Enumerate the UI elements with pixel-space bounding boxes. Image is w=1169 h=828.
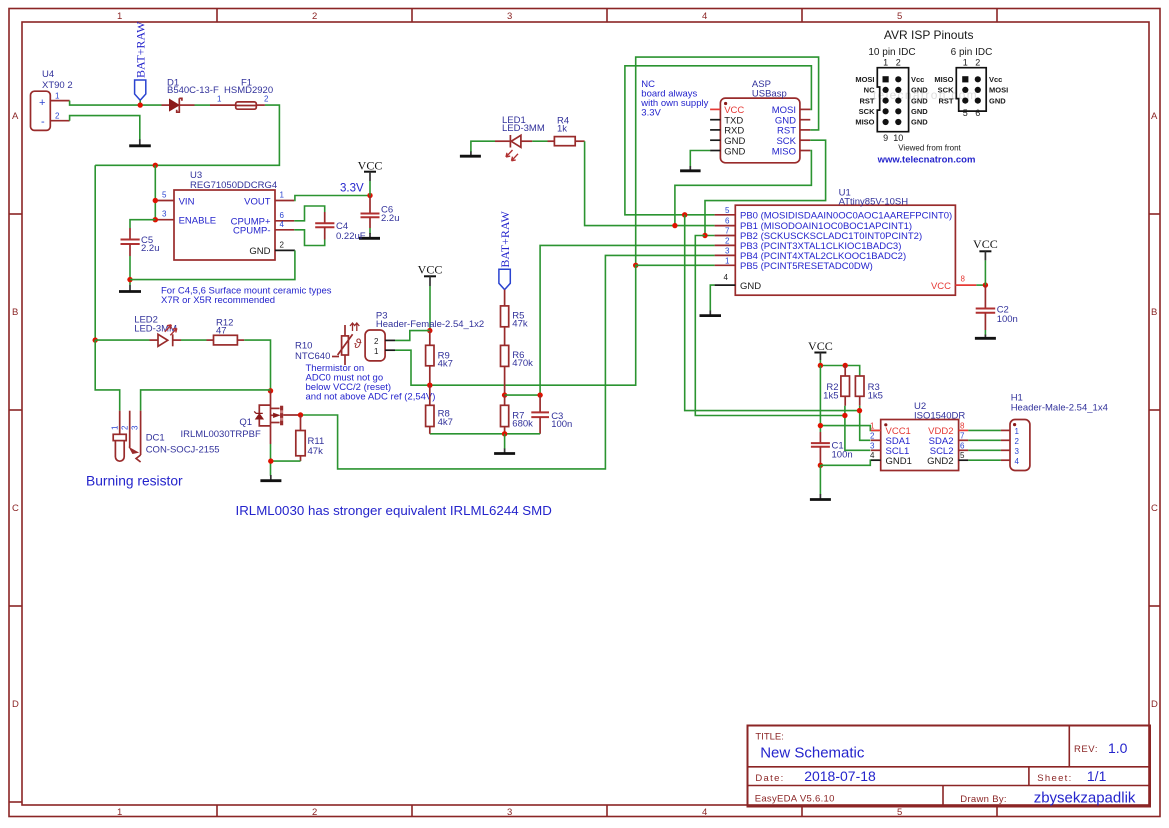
wire ground to LED1 (471, 141, 495, 151)
svg-text:3: 3 (507, 11, 512, 22)
netflag VCC U2 (808, 339, 833, 366)
wire to ground C3 (504, 434, 506, 449)
svg-text:2: 2 (312, 11, 317, 22)
svg-text:MISO: MISO (772, 146, 796, 157)
wire PB4 to Q1 drain (301, 255, 715, 469)
P3 pin 1 stub (385, 349, 395, 351)
junction node R7 bottom (502, 431, 507, 436)
wire VCC1 (820, 426, 879, 431)
capacitor C2 100n (976, 285, 1018, 330)
U2 pin 5 (959, 451, 969, 460)
ground battery (129, 139, 151, 146)
resistor R12 47 (207, 318, 245, 345)
wire LED2 to R12 (181, 339, 207, 341)
wire MISO to PB1 (675, 151, 812, 226)
svg-text:4: 4 (702, 807, 707, 818)
svg-text:2: 2 (975, 58, 980, 68)
svg-text:2: 2 (870, 431, 875, 440)
netflag VCC P3 (418, 263, 443, 331)
wire CPUMP+ to C4 (294, 206, 324, 221)
U2 pin 7 (959, 431, 969, 440)
wire Q1 source down (270, 444, 272, 476)
wire R3 to SDA1 (860, 406, 871, 441)
svg-text:1: 1 (374, 347, 379, 356)
wire R12 to Q1 (244, 340, 270, 391)
svg-text:4: 4 (702, 11, 707, 22)
svg-text:47k: 47k (512, 318, 528, 329)
U1 pin 7 PB2 (715, 227, 736, 236)
svg-text:1: 1 (963, 58, 968, 68)
svg-text:5: 5 (960, 451, 965, 460)
svg-text:CPUMP-: CPUMP- (233, 226, 270, 237)
svg-text:XT90 2: XT90 2 (42, 80, 73, 91)
wire U1 VCC (976, 284, 985, 286)
ASP right stubs MOSI GND RST SCK MISO (800, 109, 810, 150)
svg-text:1k5: 1k5 (823, 391, 838, 402)
svg-text:MISO: MISO (934, 75, 953, 84)
svg-text:PB0 (MOSIDISDAAIN0OC0AOC1AAREF: PB0 (MOSIDISDAAIN0OC0AOC1AAREFPCINT0) (740, 210, 952, 221)
IC U2 ISO1540DR (881, 401, 966, 471)
wire MOSI to PB0 (625, 66, 812, 215)
svg-text:1: 1 (280, 191, 285, 200)
capacitor C3 100n (531, 395, 572, 434)
svg-text:1: 1 (117, 807, 122, 818)
svg-text:GND: GND (911, 118, 928, 127)
junction node SDA (857, 408, 862, 413)
svg-text:1: 1 (1015, 427, 1020, 436)
svg-text:A: A (12, 111, 19, 122)
U1 pin 6 PB1 (715, 217, 736, 226)
svg-text:2: 2 (280, 240, 285, 249)
svg-text:ENABLE: ENABLE (179, 216, 217, 227)
connector DC1 CON-SOCJ-2155 (111, 411, 220, 462)
svg-text:7: 7 (960, 431, 965, 440)
ground C1 (810, 494, 831, 500)
svg-text:CON-SOCJ-2155: CON-SOCJ-2155 (146, 445, 220, 456)
svg-text:VCC: VCC (358, 159, 383, 173)
junction node PB5 (633, 263, 638, 268)
wire RST to PB5 (636, 57, 819, 265)
svg-text:1/1: 1/1 (1087, 768, 1107, 784)
wire DC1 pin3 to Q1 (141, 390, 271, 411)
U1 pin 5 PB0 (715, 206, 736, 215)
svg-text:RST: RST (939, 96, 954, 105)
svg-text:4: 4 (1015, 457, 1020, 466)
resistor R5 47k (501, 290, 528, 330)
svg-text:+: + (39, 97, 45, 109)
resistor R3 1k5 (855, 376, 883, 406)
wire R7 C3 bottom (430, 433, 540, 435)
svg-text:100n: 100n (832, 450, 853, 461)
svg-text:Date:: Date: (755, 773, 784, 784)
U1 pin 8 VCC (955, 275, 976, 286)
svg-text:Drawn By:: Drawn By: (960, 794, 1007, 805)
svg-text:4k7: 4k7 (438, 358, 453, 369)
junction node PB0 (682, 212, 687, 217)
ground C3 (494, 449, 515, 454)
svg-text:REV:: REV: (1074, 744, 1098, 755)
junction node C3 top (537, 392, 542, 397)
junction node C1 bottom (818, 463, 823, 468)
svg-text:3: 3 (162, 210, 167, 219)
header P3 Header-Female-2.54_1x2 (365, 310, 484, 361)
svg-text:VCC: VCC (808, 339, 833, 353)
svg-text:6: 6 (960, 441, 965, 450)
svg-text:2018-07-18: 2018-07-18 (804, 768, 876, 784)
svg-text:SCK: SCK (938, 86, 954, 95)
svg-text:1: 1 (111, 425, 120, 430)
svg-text:VCC: VCC (418, 263, 443, 277)
junction node C5 bottom (127, 277, 132, 282)
svg-text:MOSI: MOSI (855, 75, 874, 84)
annotation NC note (640, 79, 708, 119)
svg-text:680k: 680k (512, 418, 533, 429)
svg-text:C: C (12, 503, 19, 514)
svg-text:GND1: GND1 (886, 456, 912, 467)
svg-text:Q1: Q1 (239, 417, 252, 428)
resistor R8 4k7 (426, 385, 453, 434)
svg-text:3.3V: 3.3V (340, 183, 364, 195)
svg-text:6: 6 (725, 217, 730, 226)
junction node R2 top (843, 363, 848, 368)
svg-text:5: 5 (897, 807, 902, 818)
IC ASP USBasp (720, 79, 800, 163)
svg-text:MISO: MISO (855, 118, 874, 127)
P3 pin 2 stub (385, 339, 395, 341)
svg-text:RST: RST (860, 96, 875, 105)
svg-text:6: 6 (975, 108, 980, 118)
netflag BAT+RAW 1 (134, 21, 148, 105)
header H1 Header-Male-2.54_1x4 (1010, 393, 1108, 471)
regulator U3 REG71050DDCRG4 (174, 170, 277, 260)
svg-text:1k: 1k (557, 124, 567, 135)
svg-text:REG71050DDCRG4: REG71050DDCRG4 (190, 180, 277, 191)
svg-text:10 pin IDC: 10 pin IDC (868, 47, 915, 58)
svg-text:Sheet:: Sheet: (1037, 773, 1072, 784)
resistor R4 1k (548, 116, 585, 146)
svg-text:LED-3MM: LED-3MM (502, 123, 545, 134)
svg-text:New Schematic: New Schematic (760, 745, 865, 762)
svg-text:3: 3 (725, 246, 730, 255)
svg-text:PB5 (PCINT5RESETADC0DW): PB5 (PCINT5RESETADC0DW) (740, 261, 873, 272)
wire P3 pin2 to R9 top (395, 331, 430, 341)
svg-text:2: 2 (264, 95, 269, 104)
LED LED1 LED-3MM (495, 115, 545, 161)
svg-text:5: 5 (725, 206, 730, 215)
wire rail to DC1 (95, 340, 120, 411)
junction node ENABLE (153, 217, 158, 222)
wire LED1 to R4 (532, 140, 547, 142)
svg-text:4: 4 (870, 451, 875, 460)
svg-text:8: 8 (961, 275, 966, 284)
wire U4 pin2 to ground (70, 116, 140, 140)
ground C2 (975, 335, 996, 339)
IC U1 ATtiny85V-10SH (735, 188, 955, 296)
wire GND1 loop (820, 460, 879, 465)
svg-text:2: 2 (121, 425, 130, 430)
svg-text:Header-Female-2.54_1x2: Header-Female-2.54_1x2 (376, 319, 484, 330)
svg-text:B: B (12, 307, 18, 318)
wire ASP GND to ground (690, 151, 710, 167)
junction node PB2 (702, 233, 707, 238)
U3 pin 2 GND (275, 240, 295, 250)
svg-text:3.3V: 3.3V (641, 108, 661, 119)
ASP pin RXD stub (710, 129, 720, 131)
U3 pin 4 CPUMP- (275, 220, 294, 230)
svg-text:470k: 470k (512, 358, 533, 369)
svg-text:1: 1 (55, 92, 60, 101)
svg-text:B540C-13-F: B540C-13-F (167, 85, 219, 96)
svg-text:U4: U4 (42, 69, 54, 80)
svg-text:D: D (1151, 699, 1158, 710)
svg-text:GND2: GND2 (927, 456, 953, 467)
junction node PB1 (672, 223, 677, 228)
wire GND2 to H1 (968, 459, 1001, 461)
svg-text:A: A (1151, 111, 1158, 122)
svg-text:AVR ISP Pinouts: AVR ISP Pinouts (884, 28, 974, 42)
capacitor C5 2.2u (121, 228, 160, 256)
wire SCL2 to H1 (968, 449, 1001, 451)
svg-text:4: 4 (280, 220, 285, 229)
wire C6 to ground (369, 228, 371, 234)
thermistor R10 NTC640 (295, 323, 362, 365)
junction node LED2 rail (93, 337, 98, 342)
U4 pin 1 (50, 92, 69, 101)
ground C6 (359, 233, 380, 238)
capacitor C4 0.22uF (315, 212, 366, 242)
svg-text:NC: NC (864, 86, 875, 95)
junction node VCC1 tap (818, 423, 823, 428)
svg-text:GND: GND (740, 281, 761, 292)
svg-text:9: 9 (883, 133, 888, 143)
junction node SCL (842, 413, 847, 418)
ground Q1 (260, 475, 281, 481)
svg-text:100n: 100n (997, 314, 1018, 325)
wire VOUT to 3.3V rail (294, 196, 370, 201)
svg-text:2: 2 (312, 807, 317, 818)
svg-text:Viewed from front: Viewed from front (898, 144, 961, 153)
fuse F1 HSMD2920 (210, 78, 273, 110)
wire VCC rail to R3 (820, 366, 859, 377)
svg-text:IRLML0030 has stronger equival: IRLML0030 has stronger equivalent IRLML6… (236, 503, 552, 518)
svg-text:ISO1540DR: ISO1540DR (914, 410, 965, 421)
U2 pin 4 (870, 451, 881, 460)
U3 pin 3 ENABLE (155, 210, 174, 220)
junction node VIN rail top (153, 163, 158, 168)
svg-text:7: 7 (725, 227, 730, 236)
ground U1 (700, 311, 722, 316)
wire R6 to C3 (505, 394, 540, 396)
U1 pin 1 PB5 (715, 256, 736, 265)
svg-text:3: 3 (1015, 447, 1020, 456)
wire R11 to source (271, 460, 300, 462)
svg-text:X7R or X5R recommended: X7R or X5R recommended (161, 295, 275, 306)
junction node R6 C3 (502, 392, 507, 397)
svg-text:NTC640: NTC640 (295, 351, 330, 362)
wire U1 GND to ground (710, 285, 714, 311)
svg-text:B: B (1151, 307, 1157, 318)
junction node R9 R8 (427, 383, 432, 388)
ASP pin GND2 stub (710, 150, 720, 152)
ASP pin TXD stub (710, 119, 720, 121)
6 pin IDC connector (934, 58, 1008, 119)
svg-text:USBasp: USBasp (752, 89, 787, 100)
wire PB5 to ADC0 (395, 265, 715, 385)
svg-text:VOUT: VOUT (244, 196, 271, 207)
svg-text:100n: 100n (551, 419, 572, 430)
resistor R9 4k7 (426, 331, 453, 386)
svg-text:4k7: 4k7 (438, 417, 453, 428)
wire C2 to ground (984, 330, 986, 336)
svg-text:1: 1 (725, 256, 730, 265)
U3 pin 1 VOUT (275, 191, 294, 201)
wire ENABLE to C5 (130, 220, 155, 228)
svg-text:GND: GND (911, 107, 928, 116)
svg-text:1: 1 (117, 11, 122, 22)
svg-text:Burning resistor: Burning resistor (86, 474, 183, 489)
wire VCC rail down (819, 366, 821, 433)
svg-text:VCC: VCC (931, 281, 951, 292)
svg-text:BAT+RAW: BAT+RAW (498, 210, 512, 267)
svg-text:2.2u: 2.2u (141, 243, 160, 254)
U2 pin 3 (870, 441, 881, 450)
svg-text:GND: GND (724, 146, 745, 157)
wire PB3 to divider (540, 245, 715, 395)
junction node Q1 source (268, 458, 273, 463)
ground U3 (119, 285, 141, 292)
svg-text:VCC: VCC (973, 237, 998, 251)
svg-text:TITLE:: TITLE: (755, 731, 784, 742)
wire U3 GND loop (130, 250, 295, 279)
svg-text:GND: GND (911, 96, 928, 105)
svg-text:5: 5 (963, 108, 968, 118)
U3 pin 6 CPUMP+ (275, 211, 294, 221)
svg-text:3: 3 (870, 441, 875, 450)
capacitor C1 100n (811, 432, 853, 465)
wire R4 to PB1 (585, 141, 715, 225)
svg-text:10: 10 (893, 133, 903, 143)
svg-text:1: 1 (217, 95, 222, 104)
U2 pin 2 (870, 431, 881, 440)
svg-text:ATtiny85V-10SH: ATtiny85V-10SH (839, 197, 909, 208)
svg-text:EasyEDA V5.6.10: EasyEDA V5.6.10 (755, 794, 835, 805)
svg-text:8: 8 (960, 421, 965, 430)
svg-text:5: 5 (162, 191, 167, 200)
netflag BAT+RAW 2 (498, 210, 512, 289)
svg-text:VIN: VIN (179, 196, 195, 207)
junction node Q1 drain (298, 412, 303, 417)
svg-text:GND: GND (249, 246, 270, 257)
title block (748, 726, 1151, 807)
annotation thermistor note (306, 363, 436, 403)
wire F1 to VIN rail (95, 105, 279, 165)
transistor Q1 IRLML0030TRPBF (181, 391, 301, 444)
svg-text:2.2u: 2.2u (381, 213, 400, 224)
svg-text:0.22uF: 0.22uF (336, 231, 366, 242)
svg-text:1.0: 1.0 (1108, 740, 1128, 756)
svg-text:3: 3 (507, 807, 512, 818)
H1 pin stubs (1001, 430, 1010, 460)
svg-text:DC1: DC1 (146, 433, 165, 444)
svg-text:GND: GND (989, 96, 1006, 105)
svg-text:1: 1 (883, 58, 888, 68)
U2 pin 1 (870, 421, 881, 430)
svg-text:4: 4 (724, 273, 729, 282)
svg-text:2: 2 (55, 112, 60, 121)
connector U4 XT90 (31, 69, 73, 130)
junction node U1 VCC (983, 282, 988, 287)
wire CPUMP- to C4 (294, 230, 324, 246)
U1 pin 3 PB4 (715, 246, 736, 255)
svg-text:1k5: 1k5 (868, 391, 883, 402)
svg-text:2: 2 (374, 337, 379, 346)
svg-text:SCK: SCK (859, 107, 875, 116)
netflag VCC U1 (973, 237, 998, 285)
ground ASP (680, 166, 701, 171)
svg-text:C: C (1151, 503, 1158, 514)
10 pin IDC connector (855, 58, 928, 144)
U4 pin 2 (50, 112, 69, 121)
ground LED1 (460, 151, 481, 156)
svg-text:zbysekzapadlik: zbysekzapadlik (1034, 790, 1136, 807)
wire left rail down (94, 165, 96, 340)
svg-text:2: 2 (896, 58, 901, 68)
LED LED2 LED-3MM (95, 314, 181, 346)
svg-text:6 pin IDC: 6 pin IDC (951, 47, 993, 58)
svg-text:Vcc: Vcc (911, 75, 924, 84)
AVR ISP pinout panel (868, 28, 992, 102)
svg-text:MOSI: MOSI (989, 86, 1008, 95)
wire R2 to SCL1 (845, 406, 870, 451)
capacitor C6 2.2u (361, 196, 400, 229)
junction node Q1 gate (268, 388, 273, 393)
resistor R2 1k5 (823, 366, 849, 406)
svg-text:and not above ADC ref (2,54V): and not above ADC ref (2,54V) (306, 392, 436, 403)
U3 pin 5 VIN (155, 191, 174, 201)
wire SDA2 to H1 (968, 439, 1001, 441)
svg-text:IRLML0030TRPBF: IRLML0030TRPBF (181, 429, 261, 440)
wire PB2 to SCL (695, 236, 845, 416)
svg-text:-: - (41, 116, 45, 128)
netflag VCC top (358, 159, 383, 196)
U1 pin 2 PB3 (715, 236, 736, 245)
junction node BAT+RAW (138, 102, 143, 107)
wire C1 to ground (819, 465, 821, 494)
U1 pin 4 GND (715, 273, 736, 285)
junction node 3.3V VCC (367, 193, 372, 198)
svg-text:ϑ: ϑ (354, 336, 362, 351)
junction node VIN (153, 198, 158, 203)
svg-text:47k: 47k (308, 446, 324, 457)
wire C5 to ground (129, 256, 131, 285)
ASP pin VCC stub (710, 108, 720, 110)
svg-text:www.telecnatron.com: www.telecnatron.com (877, 155, 976, 166)
wire VDD2 to H1 (968, 429, 1001, 431)
wire U4 pin1 to D1 (70, 101, 162, 106)
ASP pin GND1 stub (710, 139, 720, 141)
svg-text:2: 2 (1015, 437, 1020, 446)
resistor R11 47k (296, 415, 324, 461)
svg-text:Header-Male-2.54_1x4: Header-Male-2.54_1x4 (1011, 403, 1108, 414)
junction node VCC rail (818, 363, 823, 368)
U2 pin 8 (959, 421, 969, 430)
resistor R7 680k (501, 395, 534, 434)
svg-text:BAT+RAW: BAT+RAW (134, 21, 148, 78)
svg-text:GND: GND (911, 86, 928, 95)
wire SCK to PB2 (705, 140, 826, 235)
junction node P3 R9 (427, 328, 432, 333)
wire D1 to F1 (195, 104, 211, 106)
